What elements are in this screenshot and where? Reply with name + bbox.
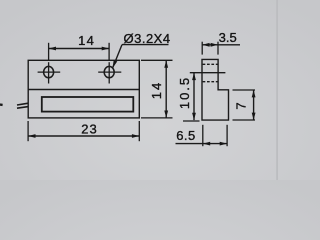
arrowheads of dimension 14 hole spacing <box>49 47 56 51</box>
svg-text:6.5: 6.5 <box>176 128 196 143</box>
front view body outline <box>28 60 139 118</box>
arrowheads of dimension 10.5 <box>192 73 196 80</box>
hole 2 crosshair <box>98 62 121 83</box>
scan edge shading at right border <box>276 0 278 180</box>
dimension 14 vertical (body height) extension lines <box>141 60 173 118</box>
arrowheads of dimension 3.5 <box>202 43 209 47</box>
arrowheads of dimension 14 vertical <box>164 60 168 67</box>
front view slot (inner rectangle) <box>42 97 134 112</box>
dimension 6.5 line <box>176 143 228 145</box>
arrowheads of dimension 7 <box>252 90 256 97</box>
dimension 7 line <box>253 90 255 120</box>
hole 1 circle <box>44 66 54 77</box>
dimension 14 (hole spacing) line <box>49 48 110 50</box>
dimension 7 extension lines <box>233 90 256 120</box>
svg-text:3.5: 3.5 <box>219 30 237 45</box>
arrowheads of dimension 6.5 <box>203 142 210 146</box>
svg-text:Ø3.2X4: Ø3.2X4 <box>124 31 171 46</box>
hole 1 crosshair <box>38 62 61 83</box>
dimension 23 line <box>28 135 139 137</box>
svg-text:7: 7 <box>234 102 249 109</box>
dimension 10.5 bottom extension line <box>183 120 200 122</box>
dimension 14 vertical line <box>165 60 167 118</box>
leader line of hole label <box>113 45 169 69</box>
side view outline <box>202 59 229 120</box>
dimension 6.5 extension lines <box>203 125 227 146</box>
dimension 10.5 line <box>193 73 195 120</box>
dimension 3.5 extension lines <box>202 42 218 55</box>
arrowheads of dimension 23 <box>28 134 35 138</box>
arrowhead of hole label leader <box>113 60 118 68</box>
svg-text:14: 14 <box>78 33 95 48</box>
wire leads on left <box>17 103 28 108</box>
svg-text:23: 23 <box>81 121 97 136</box>
svg-text:14: 14 <box>149 81 164 99</box>
dimension 3.5 line <box>202 44 240 46</box>
dimension 23 extension lines <box>28 121 139 141</box>
side view hidden hole lines (dashed) <box>203 64 218 81</box>
hole 2 circle <box>104 66 114 77</box>
svg-text:10.5: 10.5 <box>177 76 192 109</box>
dimension 14 (hole spacing) extension lines <box>49 43 110 60</box>
wire mark at image edge <box>0 103 3 106</box>
front view parting line <box>28 89 139 91</box>
side view hole centre line <box>190 72 226 74</box>
